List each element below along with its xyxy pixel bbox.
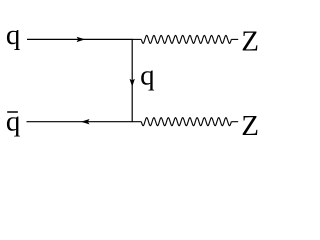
svg-text:Z: Z (241, 110, 259, 142)
arrow on top quark line (77, 37, 86, 42)
Z boson wavy line (top) (132, 38, 141, 40)
svg-text:q: q (6, 19, 21, 51)
Z boson wavy line (bottom) (132, 121, 141, 123)
svg-text:Z: Z (241, 26, 259, 58)
svg-text:q: q (6, 106, 21, 138)
overline of qbar (7, 111, 18, 113)
svg-text:q: q (140, 59, 155, 91)
quark propagator (vertical internal line) (131, 39, 133, 121)
arrow on bottom antiquark line (81, 119, 90, 124)
arrow on propagator (downward) (130, 79, 135, 87)
quark line (top incoming fermion) (27, 38, 133, 40)
antiquark line (bottom incoming fermion) (27, 121, 133, 123)
